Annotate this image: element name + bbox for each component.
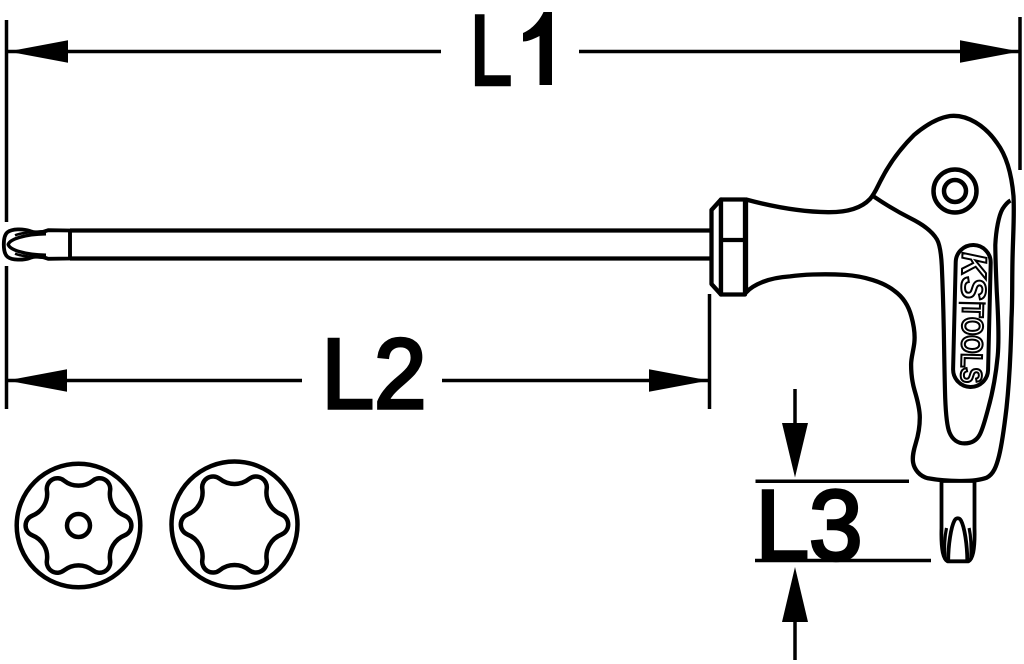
L1 left extension line (5, 20, 9, 222)
right torx profile circle (172, 462, 298, 588)
right torx star (181, 476, 288, 572)
tip/shaft separator line (68, 231, 72, 258)
bit central lobe arch (948, 518, 967, 561)
hanging hole ring (934, 170, 977, 213)
L3 top arrowhead (pointing down) (782, 423, 808, 478)
L1 dimension line left segment (8, 50, 441, 54)
bit left groove (945, 528, 947, 559)
bit right groove (969, 528, 971, 559)
svg-text:L: L (470, 0, 512, 106)
L1 right arrowhead (960, 40, 1020, 62)
left torx star (26, 478, 132, 572)
L3 top boundary line (756, 480, 910, 484)
left torx profile circle (with pin hole) (17, 464, 141, 588)
shaft of the torx key (70, 231, 711, 259)
L3 bottom arrowhead (pointing up) (782, 567, 808, 622)
collar mid line (721, 238, 745, 242)
L3 bottom arrow stem (793, 619, 797, 660)
L2 dimension line right segment (442, 379, 709, 383)
collar main section (721, 200, 745, 295)
L2 left extension line (lower part of same) (5, 266, 9, 409)
tip lower groove (15, 254, 44, 258)
torx tip at left end of shaft (4, 229, 70, 259)
L1 dimension line right segment (579, 50, 1020, 54)
digit 1 of L1 (custom glyph) (523, 12, 552, 85)
tip upper groove (15, 231, 44, 235)
L2 right extension line (708, 294, 712, 409)
KS TOOLS logo stadium (953, 245, 991, 388)
L1 left arrowhead (8, 40, 68, 62)
svg-text:L2: L2 (322, 318, 427, 429)
L3 top arrow stem (793, 389, 797, 428)
collar chamfered front section (712, 200, 722, 295)
svg-text:L3: L3 (756, 470, 863, 581)
left torx center hole (67, 514, 90, 537)
inner seam line of soft grip (873, 196, 1011, 443)
L2 left arrowhead (7, 369, 67, 391)
L2 dimension line left segment (7, 379, 302, 383)
L2 right arrowhead (649, 369, 709, 391)
tip central lobe arch (8, 234, 46, 255)
torx bit below handle (941, 481, 974, 561)
L3 bottom boundary line (755, 559, 931, 563)
collar / ferrule (712, 200, 746, 295)
handle outline (746, 116, 1014, 481)
L1 right extension line (1018, 17, 1022, 170)
